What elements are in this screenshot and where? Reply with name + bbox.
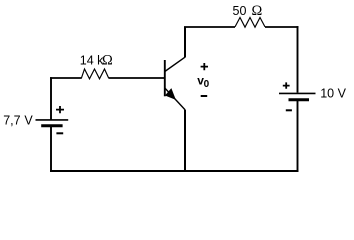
svg-text:0: 0 [204,79,210,90]
wire right upper vertical [297,26,299,93]
resistor R1 14 kOhm zigzag [81,69,109,79]
svg-text:Ω: Ω [102,53,113,69]
resistor R1 value label 14 kOhm [80,53,113,69]
battery V1 short plate [41,124,62,127]
battery V2 value label 10 V [320,86,346,100]
svg-text:V: V [24,113,33,127]
wire base right segment to transistor [109,77,164,79]
battery V2 plus sign [283,82,290,88]
node vo minus sign [201,95,208,97]
wire left vertical lower [50,127,52,172]
svg-text:14 k: 14 k [80,54,104,68]
wire top right segment [265,26,299,28]
svg-text:Ω: Ω [252,3,263,19]
transistor Q1 collector diagonal [165,57,185,71]
wire collector vertical [184,27,186,58]
battery V1 minus sign [56,132,63,134]
battery V1 long plate [36,119,69,121]
wire right lower vertical [297,100,299,172]
transistor Q1 emitter arrowhead [166,90,174,99]
node vo plus sign [201,63,208,70]
battery V1 value label 7,7 V [3,113,33,127]
transistor Q1 emitter diagonal [165,88,185,110]
resistor R2 value label 50 Ohm [233,3,263,19]
wire top left segment [184,26,235,28]
resistor R2 50 Ohm zigzag [235,18,265,28]
battery V2 minus sign [286,109,292,111]
svg-text:10 V: 10 V [320,86,346,100]
svg-text:7,7: 7,7 [3,113,20,127]
battery V1 plus sign [56,106,64,113]
wire base left segment [50,77,82,79]
svg-text:50: 50 [233,4,247,18]
battery V2 long plate [279,92,316,94]
wire emitter vertical [184,110,186,172]
node vo label [197,74,209,90]
battery V2 short plate [289,98,310,101]
transistor Q1 base bar [164,60,166,96]
wire bottom [50,170,298,172]
wire left vertical upper [50,77,52,119]
